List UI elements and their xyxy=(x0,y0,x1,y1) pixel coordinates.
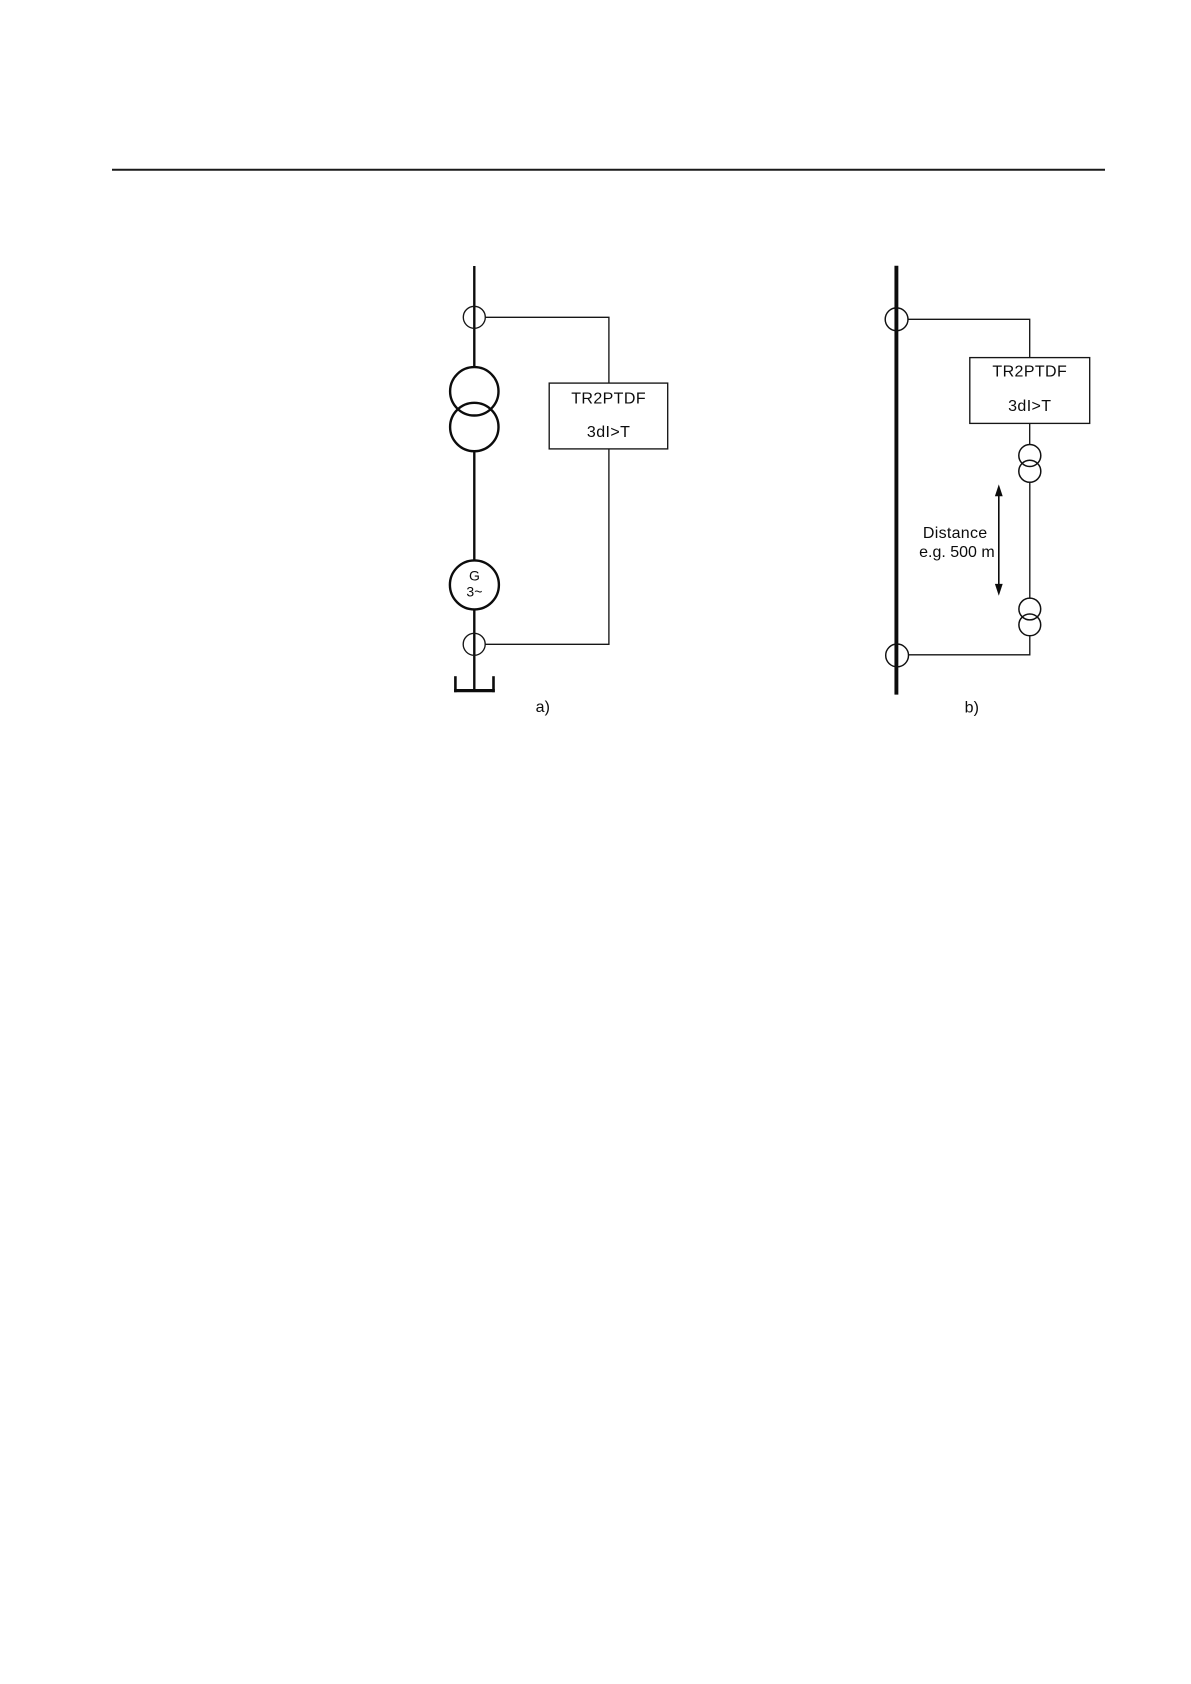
svg-text:3dI>T: 3dI>T xyxy=(587,424,630,441)
wire: transformer T3 to CT-bottom (diagram b) xyxy=(908,636,1029,655)
wire: transformer T2 to transformer T3 (diagram b) xyxy=(1029,483,1031,598)
svg-text:Distance: Distance xyxy=(923,525,988,542)
svg-text:TR2PTDF: TR2PTDF xyxy=(992,364,1067,381)
wire: feeder line middle segment (diagram a) xyxy=(473,451,475,561)
transformer T1 (two-winding, diagram a) xyxy=(450,367,498,451)
header rule xyxy=(112,169,1105,171)
svg-text:3~: 3~ xyxy=(466,584,482,600)
svg-text:TR2PTDF: TR2PTDF xyxy=(571,391,646,408)
wire: relay to transformer T2 (diagram b) xyxy=(1029,423,1031,444)
generator G 3~ (diagram a) xyxy=(450,560,499,609)
label Distance e.g. 500 m xyxy=(919,525,995,561)
wire: feeder line lower segment (diagram a) xyxy=(473,609,475,692)
wire: feeder line upper segment (diagram a) xyxy=(473,266,475,367)
transformer T2 (diagram b, upper) xyxy=(1019,445,1041,483)
relay box TR2PTDF (diagram b) xyxy=(970,358,1090,424)
transformer T3 (diagram b, lower) xyxy=(1019,598,1041,636)
busbar (diagram b) xyxy=(894,266,898,695)
CT top (diagram b) xyxy=(885,308,908,331)
distance arrow (double-headed, diagram b) xyxy=(995,484,1003,595)
ground (diagram a) xyxy=(454,676,495,692)
wire: CT-top to relay (diagram b) xyxy=(908,319,1030,357)
svg-text:G: G xyxy=(469,567,480,583)
svg-text:e.g. 500 m: e.g. 500 m xyxy=(919,544,995,561)
svg-text:a): a) xyxy=(536,699,550,716)
relay box TR2PTDF (diagram a) xyxy=(549,383,668,449)
CT top (diagram a) xyxy=(463,306,485,328)
CT bottom (diagram b) xyxy=(886,644,909,667)
wire: CT-top to relay (diagram a) xyxy=(485,317,609,383)
wire: relay to CT-bottom (diagram a) xyxy=(485,449,609,644)
svg-text:b): b) xyxy=(965,699,979,716)
svg-text:3dI>T: 3dI>T xyxy=(1008,398,1051,415)
CT bottom (diagram a) xyxy=(463,633,485,655)
